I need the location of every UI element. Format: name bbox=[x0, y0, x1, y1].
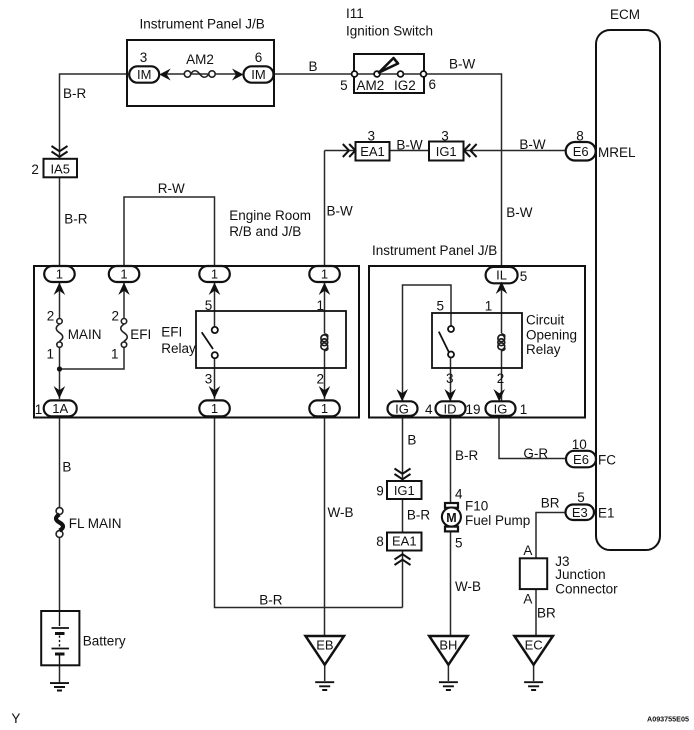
svg-text:B: B bbox=[62, 460, 71, 475]
svg-text:F10: F10 bbox=[465, 499, 488, 514]
svg-text:B-W: B-W bbox=[396, 137, 423, 152]
svg-text:ID: ID bbox=[444, 401, 457, 416]
svg-text:1: 1 bbox=[211, 267, 218, 282]
svg-text:B-R: B-R bbox=[259, 593, 283, 608]
svg-text:BR: BR bbox=[541, 496, 560, 511]
svg-text:EC: EC bbox=[525, 638, 543, 653]
svg-text:IA5: IA5 bbox=[50, 162, 70, 177]
svg-text:EB: EB bbox=[316, 638, 333, 653]
svg-text:Battery: Battery bbox=[83, 634, 126, 649]
svg-text:19: 19 bbox=[465, 402, 480, 417]
svg-text:Ignition Switch: Ignition Switch bbox=[346, 24, 433, 39]
svg-text:2: 2 bbox=[497, 371, 505, 386]
svg-text:3: 3 bbox=[205, 372, 213, 387]
svg-text:3: 3 bbox=[441, 129, 449, 144]
svg-text:IM: IM bbox=[137, 67, 151, 82]
svg-text:B-R: B-R bbox=[407, 508, 431, 523]
svg-text:Relay: Relay bbox=[526, 342, 561, 357]
svg-text:IG: IG bbox=[395, 401, 409, 416]
svg-text:B-R: B-R bbox=[64, 212, 88, 227]
svg-text:1: 1 bbox=[520, 402, 528, 417]
svg-text:3: 3 bbox=[446, 371, 454, 386]
svg-text:B-W: B-W bbox=[519, 137, 546, 152]
svg-text:5: 5 bbox=[520, 269, 528, 284]
svg-text:IL: IL bbox=[496, 268, 507, 283]
svg-text:8: 8 bbox=[576, 129, 584, 144]
svg-text:A093755E05: A093755E05 bbox=[647, 715, 689, 724]
svg-text:B: B bbox=[308, 59, 317, 74]
svg-text:MAIN: MAIN bbox=[68, 327, 102, 342]
svg-text:Y: Y bbox=[11, 711, 20, 726]
svg-text:6: 6 bbox=[255, 50, 263, 65]
svg-text:IG2: IG2 bbox=[394, 78, 416, 93]
svg-text:2: 2 bbox=[317, 372, 325, 387]
svg-text:AM2: AM2 bbox=[357, 78, 385, 93]
svg-text:ECM: ECM bbox=[610, 7, 640, 22]
svg-text:AM2: AM2 bbox=[186, 52, 214, 67]
svg-text:Relay: Relay bbox=[161, 341, 196, 356]
svg-text:B-W: B-W bbox=[449, 56, 476, 71]
svg-text:8: 8 bbox=[376, 534, 384, 549]
svg-text:IG: IG bbox=[494, 401, 508, 416]
svg-text:1: 1 bbox=[47, 346, 55, 361]
svg-text:R-W: R-W bbox=[158, 181, 185, 196]
svg-text:5: 5 bbox=[436, 299, 444, 314]
svg-text:E6: E6 bbox=[573, 144, 589, 159]
svg-text:W-B: W-B bbox=[328, 505, 354, 520]
svg-text:A: A bbox=[523, 543, 532, 558]
svg-text:5: 5 bbox=[205, 298, 213, 313]
svg-text:EFI: EFI bbox=[130, 327, 151, 342]
svg-text:FC: FC bbox=[598, 453, 616, 468]
svg-text:1: 1 bbox=[56, 267, 63, 282]
svg-text:Circuit: Circuit bbox=[526, 313, 565, 328]
svg-text:B: B bbox=[407, 433, 416, 448]
svg-text:2: 2 bbox=[111, 309, 119, 324]
svg-text:3: 3 bbox=[367, 129, 375, 144]
svg-text:1: 1 bbox=[111, 346, 119, 361]
svg-text:9: 9 bbox=[376, 484, 384, 499]
svg-text:MREL: MREL bbox=[598, 145, 636, 160]
svg-text:6: 6 bbox=[429, 77, 437, 92]
svg-text:1: 1 bbox=[485, 299, 493, 314]
svg-text:3: 3 bbox=[140, 50, 148, 65]
svg-text:R/B and J/B: R/B and J/B bbox=[229, 224, 301, 239]
svg-text:5: 5 bbox=[455, 536, 463, 551]
svg-text:1: 1 bbox=[211, 401, 218, 416]
svg-text:5: 5 bbox=[340, 78, 348, 93]
svg-text:BR: BR bbox=[537, 606, 556, 621]
svg-text:4: 4 bbox=[425, 402, 433, 417]
svg-text:Connector: Connector bbox=[555, 582, 618, 597]
svg-text:4: 4 bbox=[455, 487, 463, 502]
svg-text:E1: E1 bbox=[598, 506, 615, 521]
svg-text:1: 1 bbox=[120, 267, 127, 282]
svg-text:G-R: G-R bbox=[523, 446, 548, 461]
svg-text:Fuel Pump: Fuel Pump bbox=[465, 513, 530, 528]
svg-text:2: 2 bbox=[47, 309, 55, 324]
svg-text:5: 5 bbox=[577, 490, 585, 505]
svg-text:Junction: Junction bbox=[555, 567, 605, 582]
svg-text:1A: 1A bbox=[52, 401, 68, 416]
svg-text:M: M bbox=[446, 511, 456, 525]
svg-text:I11: I11 bbox=[346, 6, 364, 21]
svg-text:EFI: EFI bbox=[161, 324, 182, 339]
svg-text:IG1: IG1 bbox=[436, 144, 457, 159]
svg-text:FL MAIN: FL MAIN bbox=[69, 516, 122, 531]
svg-text:10: 10 bbox=[572, 437, 587, 452]
svg-text:B-R: B-R bbox=[63, 86, 87, 101]
svg-text:E3: E3 bbox=[572, 505, 588, 520]
svg-text:B-W: B-W bbox=[327, 204, 354, 219]
svg-text:1: 1 bbox=[321, 267, 328, 282]
svg-text:Opening: Opening bbox=[526, 328, 577, 343]
svg-text:Instrument Panel J/B: Instrument Panel J/B bbox=[140, 17, 265, 32]
svg-text:1: 1 bbox=[35, 402, 43, 417]
svg-text:BH: BH bbox=[439, 638, 457, 653]
svg-text:EA1: EA1 bbox=[360, 144, 385, 159]
svg-text:2: 2 bbox=[31, 162, 39, 177]
svg-text:1: 1 bbox=[321, 401, 328, 416]
svg-text:W-B: W-B bbox=[455, 579, 481, 594]
svg-text:B-R: B-R bbox=[455, 448, 479, 463]
svg-text:EA1: EA1 bbox=[392, 533, 417, 548]
svg-text:1: 1 bbox=[317, 298, 325, 313]
svg-text:Engine Room: Engine Room bbox=[229, 208, 311, 223]
svg-text:B-W: B-W bbox=[506, 205, 533, 220]
svg-text:A: A bbox=[523, 592, 532, 607]
svg-text:Instrument Panel J/B: Instrument Panel J/B bbox=[372, 243, 497, 258]
svg-text:IM: IM bbox=[251, 67, 265, 82]
svg-text:IG1: IG1 bbox=[394, 483, 415, 498]
svg-text:E6: E6 bbox=[573, 452, 589, 467]
